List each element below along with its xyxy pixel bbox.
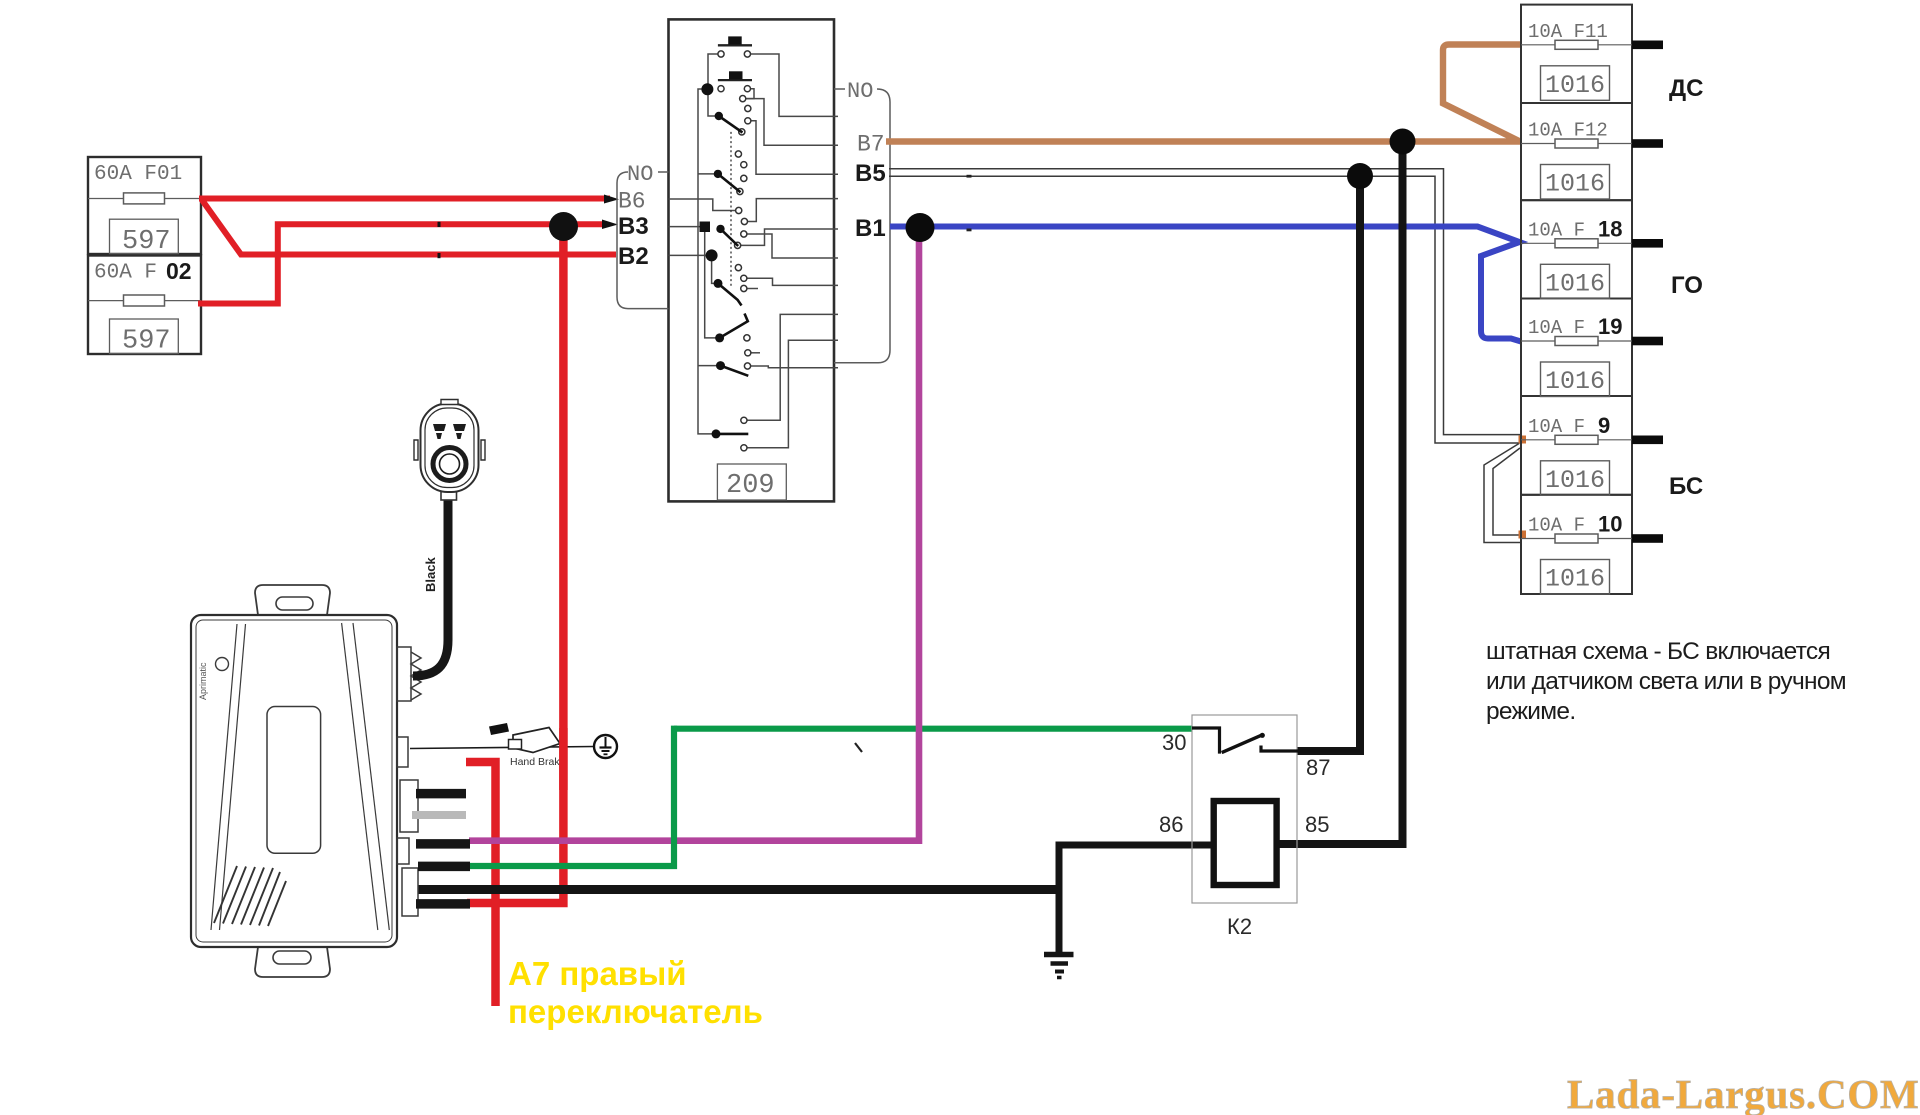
svg-text:B6: B6 <box>618 189 646 215</box>
svg-text:1016: 1016 <box>1545 565 1605 594</box>
svg-text:B7: B7 <box>857 132 885 158</box>
svg-text:ГО: ГО <box>1671 272 1703 299</box>
svg-text:1016: 1016 <box>1545 170 1605 199</box>
svg-text:1016: 1016 <box>1545 367 1605 396</box>
svg-text:209: 209 <box>726 471 775 501</box>
svg-text:9: 9 <box>1598 413 1610 438</box>
svg-text:переключатель: переключатель <box>508 993 763 1030</box>
svg-text:1016: 1016 <box>1545 270 1605 299</box>
svg-text:85: 85 <box>1305 812 1329 837</box>
svg-text:02: 02 <box>166 258 192 284</box>
svg-text:10A F: 10A F <box>1528 220 1585 242</box>
svg-text:B3: B3 <box>618 213 649 240</box>
svg-text:597: 597 <box>122 327 171 357</box>
svg-text:30: 30 <box>1162 730 1186 755</box>
svg-text:режиме.: режиме. <box>1486 698 1575 725</box>
svg-text:А7 правый: А7 правый <box>508 955 687 992</box>
svg-text:10: 10 <box>1598 512 1622 537</box>
svg-text:Hand Brake: Hand Brake <box>510 756 566 768</box>
svg-text:1016: 1016 <box>1545 466 1605 495</box>
svg-text:87: 87 <box>1306 755 1330 780</box>
svg-text:19: 19 <box>1598 314 1622 339</box>
svg-text:10A F: 10A F <box>1528 416 1585 438</box>
svg-text:Aprimatic: Aprimatic <box>198 662 208 700</box>
svg-text:К2: К2 <box>1227 914 1252 939</box>
svg-text:ДС: ДС <box>1669 75 1703 102</box>
svg-text:NO: NO <box>627 162 653 187</box>
svg-text:БС: БС <box>1669 473 1703 500</box>
svg-text:10A F: 10A F <box>1528 515 1585 537</box>
svg-text:Lada-Largus.COM: Lada-Largus.COM <box>1567 1071 1920 1115</box>
svg-text:60A F: 60A F <box>94 262 157 285</box>
svg-text:10A F11: 10A F11 <box>1528 21 1608 43</box>
svg-text:597: 597 <box>122 227 171 257</box>
svg-text:18: 18 <box>1598 217 1622 242</box>
svg-text:B2: B2 <box>618 243 649 270</box>
svg-text:B5: B5 <box>855 160 886 187</box>
svg-text:10A F: 10A F <box>1528 317 1585 339</box>
svg-text:10A F12: 10A F12 <box>1528 120 1608 142</box>
svg-text:1016: 1016 <box>1545 71 1605 100</box>
svg-text:B1: B1 <box>855 215 886 242</box>
svg-text:или датчиком света или в ручно: или датчиком света или в ручном <box>1486 668 1846 695</box>
svg-text:NO: NO <box>847 79 873 104</box>
svg-text:60A F01: 60A F01 <box>94 163 182 186</box>
svg-text:штатная схема - БС включается: штатная схема - БС включается <box>1486 638 1830 665</box>
svg-text:Black: Black <box>423 557 438 592</box>
svg-text:86: 86 <box>1159 812 1183 837</box>
